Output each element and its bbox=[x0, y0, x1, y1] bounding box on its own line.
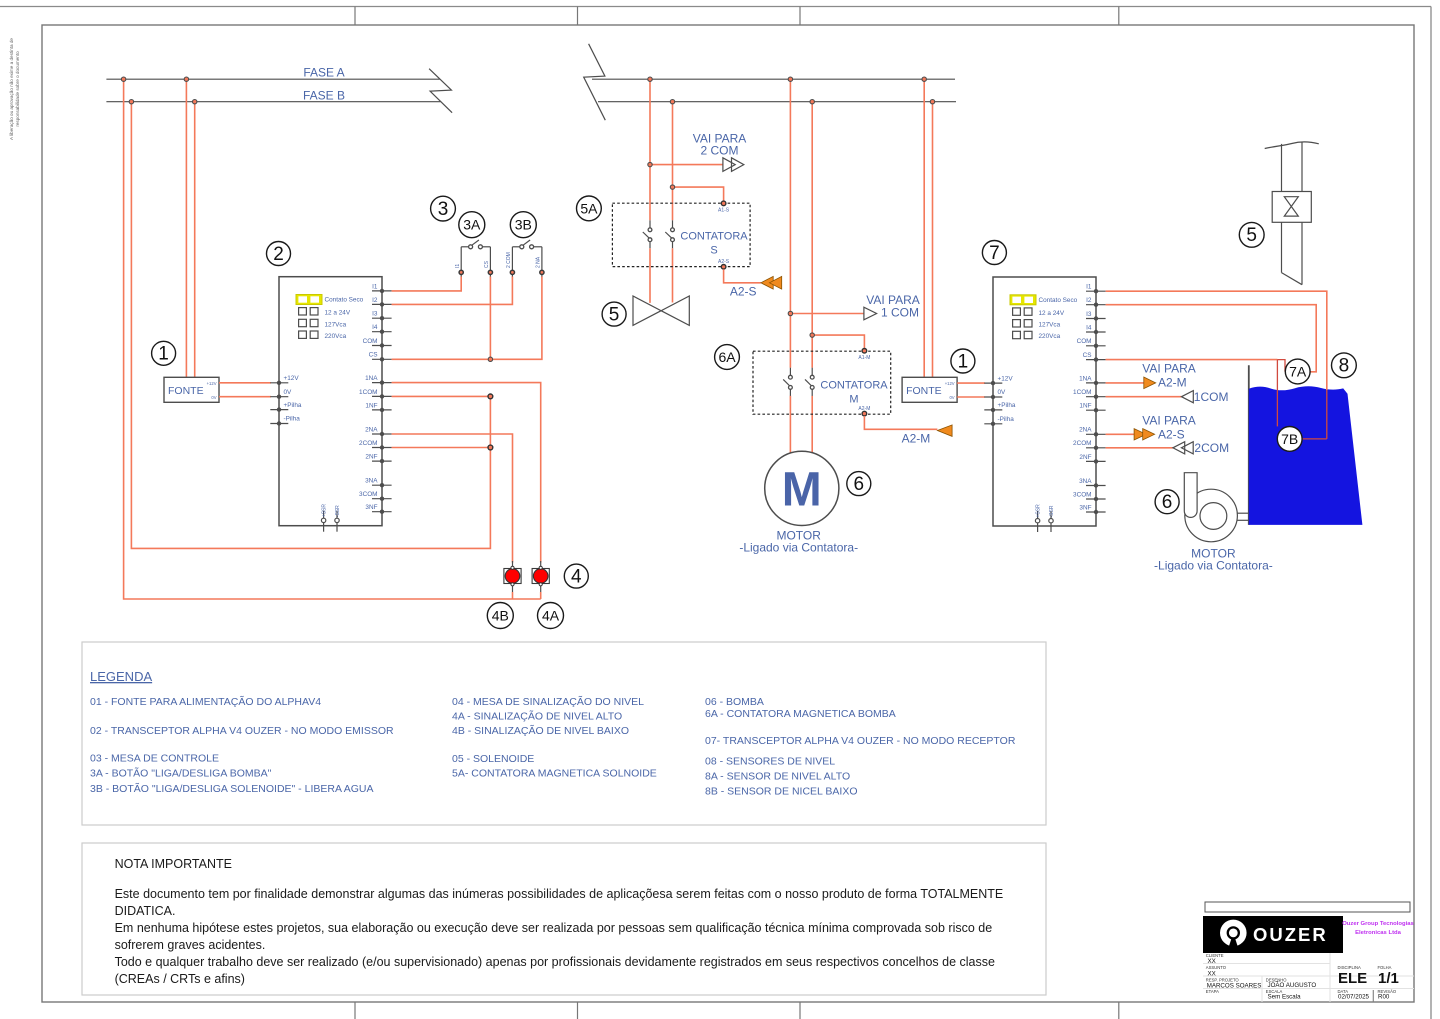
wire 2NA to button 4B bbox=[392, 434, 513, 563]
wire FASE B drop through contatora M to motor bbox=[811, 102, 813, 453]
text 2COM bbox=[1194, 441, 1229, 455]
arrow VAI PARA 2 COM (double open right) bbox=[723, 158, 744, 172]
wire U7 I1 to sensor 7B bbox=[1106, 291, 1327, 390]
power supply FONTE 2 bbox=[902, 377, 957, 402]
svg-text:sofrerem graves acidentes.: sofrerem graves acidentes. bbox=[115, 938, 266, 952]
svg-text:VAI PARA: VAI PARA bbox=[1142, 362, 1196, 376]
balloon 4 bbox=[564, 564, 588, 588]
node 2COM junction bbox=[488, 445, 493, 450]
svg-text:A2-S: A2-S bbox=[718, 259, 730, 265]
svg-text:7: 7 bbox=[989, 243, 1000, 264]
balloon 3A bbox=[459, 212, 485, 238]
text VAI PARA 1 COM bbox=[866, 293, 920, 320]
svg-text:M: M bbox=[849, 394, 858, 406]
balloon 5A bbox=[577, 196, 602, 221]
wire U7 I2 to sensor 7A bbox=[1106, 305, 1317, 372]
svg-text:I1: I1 bbox=[455, 264, 461, 268]
svg-text:A2-S: A2-S bbox=[730, 285, 757, 299]
title block divider lines bbox=[1203, 953, 1414, 1002]
svg-text:4A: 4A bbox=[542, 608, 560, 624]
text MOTOR (left) bbox=[739, 529, 858, 555]
legend title bbox=[90, 669, 152, 684]
svg-text:02 - TRANSCEPTOR ALPHA V4 OUZE: 02 - TRANSCEPTOR ALPHA V4 OUZER - NO MOD… bbox=[90, 725, 394, 737]
balloon 2 bbox=[267, 242, 291, 266]
wire 4B bottom to rail bbox=[512, 592, 514, 599]
node FASE B x194 bbox=[193, 100, 197, 104]
svg-text:ETAPA: ETAPA bbox=[1206, 989, 1219, 994]
wire FASE A drop into FONTE bbox=[185, 79, 187, 377]
arrow VAI PARA 1 COM (open right) bbox=[864, 307, 877, 320]
svg-text:A1-S: A1-S bbox=[718, 208, 730, 214]
balloon 6 (right) bbox=[1155, 490, 1179, 514]
solenoide valve 5 (right, box with hourglass) bbox=[1272, 192, 1311, 223]
svg-text:2 COM: 2 COM bbox=[700, 144, 738, 158]
svg-text:5: 5 bbox=[1246, 225, 1257, 246]
tank left wall bbox=[1248, 365, 1250, 525]
wire I2 to 3B bbox=[392, 277, 513, 305]
water inlet pipe (wavy source) bbox=[1265, 142, 1319, 149]
svg-text:R00: R00 bbox=[1378, 993, 1390, 1000]
svg-text:DIDATICA.: DIDATICA. bbox=[115, 904, 176, 918]
wire 1COM to return rail bbox=[392, 395, 491, 397]
transceptor U7 (ALPHA V4 receptor) bbox=[984, 277, 1105, 532]
indicator lamp 4A (nivel alto) bbox=[532, 561, 549, 592]
svg-text:6A: 6A bbox=[718, 349, 736, 365]
node FASE A x186 bbox=[184, 77, 188, 81]
terminal label CS bbox=[484, 260, 490, 268]
switch lead x541 bbox=[540, 247, 544, 278]
motor M circle bbox=[765, 451, 839, 525]
wire sensor 7B link bbox=[1302, 438, 1327, 440]
svg-text:6: 6 bbox=[854, 474, 865, 495]
bus FASE A segment 1 bbox=[106, 78, 439, 80]
legend box bbox=[82, 642, 1046, 825]
wire FASE B drop to FONTE 2 bbox=[932, 102, 934, 378]
svg-text:-Ligado via Contatora-: -Ligado via Contatora- bbox=[739, 541, 858, 555]
svg-text:S: S bbox=[710, 245, 717, 257]
text 1COM bbox=[1194, 390, 1229, 404]
nota text bbox=[115, 857, 1004, 986]
node FASE B x131 bbox=[129, 100, 133, 104]
svg-text:3B - BOTÃO "LIGA/DESLIGA SOLEN: 3B - BOTÃO "LIGA/DESLIGA SOLENOIDE" - LI… bbox=[90, 782, 373, 795]
node FASE B x812 bbox=[810, 100, 814, 104]
pin A1-M bbox=[858, 349, 870, 361]
svg-text:3A - BOTÃO "LIGA/DESLIGA BOMBA: 3A - BOTÃO "LIGA/DESLIGA BOMBA" bbox=[90, 767, 272, 780]
svg-text:Todo e qualquer trabalho deve: Todo e qualquer trabalho deve ser realiz… bbox=[115, 955, 995, 969]
wire FONTE2 +12V to U7 bbox=[957, 382, 985, 384]
arrow A2-S (double filled left, orange) bbox=[761, 276, 782, 289]
svg-text:1COM: 1COM bbox=[1194, 390, 1229, 404]
node x790 y313 bbox=[788, 311, 792, 315]
sensor 7B bbox=[1277, 427, 1302, 452]
svg-text:3B: 3B bbox=[515, 217, 532, 233]
bus FASE B segment 2 bbox=[598, 101, 956, 103]
switch lead x461 bbox=[459, 247, 463, 278]
text A2-M bbox=[902, 432, 931, 446]
balloon 6A bbox=[715, 345, 740, 370]
svg-text:1/1: 1/1 bbox=[1378, 970, 1399, 987]
svg-text:6: 6 bbox=[1162, 492, 1173, 513]
svg-text:3: 3 bbox=[438, 199, 449, 220]
svg-text:XX: XX bbox=[1208, 970, 1216, 977]
balloon 6 (motor) bbox=[847, 472, 871, 496]
balloon 5 (left) bbox=[602, 302, 626, 326]
svg-text:M: M bbox=[782, 464, 822, 517]
contatora S contact 1 bbox=[643, 220, 652, 248]
svg-text:OUZER: OUZER bbox=[1253, 924, 1328, 945]
arrow VAI PARA A2-M (filled right) bbox=[1144, 377, 1156, 389]
svg-text:Eletronicas Ltda: Eletronicas Ltda bbox=[1355, 930, 1402, 936]
balloon 4B bbox=[487, 603, 513, 629]
wire to VAI PARA 1 COM bbox=[790, 313, 864, 315]
wire FASE A drop to FONTE 2 bbox=[923, 79, 925, 377]
wire FASE B drop to solenoide valve bbox=[672, 102, 674, 303]
wire FASE A drop to bottom rail bbox=[124, 79, 541, 599]
switch lead x512 bbox=[510, 247, 514, 278]
wire to VAI PARA 2 COM bbox=[650, 164, 723, 166]
balloon 3 bbox=[431, 196, 456, 221]
pipe walls above valve bbox=[1282, 143, 1303, 192]
pipe outlet below valve bbox=[1282, 222, 1303, 284]
svg-text:2 NA: 2 NA bbox=[536, 256, 542, 268]
svg-text:A liberação ou aprovação não e: A liberação ou aprovação não exime a des… bbox=[9, 38, 14, 140]
svg-text:08 - SENSORES DE NIVEL: 08 - SENSORES DE NIVEL bbox=[705, 756, 835, 768]
frame tick marks top bbox=[355, 7, 1119, 26]
frame tick marks bottom bbox=[355, 1002, 1119, 1019]
switch 3B (LIGA/DESLIGA SOLENOIDE) bbox=[512, 240, 542, 249]
wire FASE B drop to COM return rail bbox=[131, 102, 490, 549]
legend column 1 bbox=[90, 695, 394, 795]
text A2-S bbox=[730, 285, 757, 299]
svg-text:Este documento tem por finalid: Este documento tem por finalidade demons… bbox=[115, 887, 1004, 901]
svg-text:5A: 5A bbox=[580, 200, 598, 216]
tank water (blue) bbox=[1249, 386, 1363, 525]
switch 3A (LIGA/DESLIGA BOMBA) bbox=[461, 240, 490, 249]
svg-text:A2-M: A2-M bbox=[902, 432, 931, 446]
solenoide valve 5 (bowtie) bbox=[633, 296, 689, 325]
svg-text:2: 2 bbox=[273, 244, 284, 265]
svg-text:8B - SENSOR DE NICEL BAIXO: 8B - SENSOR DE NICEL BAIXO bbox=[705, 786, 858, 798]
text VAI PARA 2 COM bbox=[693, 132, 747, 158]
wire 2COM to return rail bbox=[392, 447, 491, 449]
svg-text:07- TRANSCEPTOR ALPHA V4 OUZER: 07- TRANSCEPTOR ALPHA V4 OUZER - NO MODO… bbox=[705, 735, 1016, 747]
svg-text:NOTA IMPORTANTE: NOTA IMPORTANTE bbox=[115, 857, 232, 871]
title strip rect bbox=[1205, 902, 1410, 912]
wire A2-S to arrow bbox=[724, 269, 761, 283]
svg-text:2COM: 2COM bbox=[1194, 441, 1229, 455]
wire U7 1NA to arrow A2-M bbox=[1106, 382, 1144, 384]
svg-text:05 - SOLENOIDE: 05 - SOLENOIDE bbox=[452, 753, 534, 765]
wire FASE B branch to A1-M bbox=[812, 335, 864, 348]
big ELE / folha bbox=[1338, 970, 1399, 987]
svg-text:2 COM: 2 COM bbox=[506, 252, 512, 268]
wire CS to 3A/3B bbox=[392, 277, 542, 360]
bus break symbol right of segment 1 bbox=[429, 69, 452, 113]
node FASE B x932 bbox=[930, 100, 934, 104]
node 1COM junction bbox=[488, 394, 493, 399]
wire FASE A drop through contatora M to motor bbox=[789, 79, 791, 453]
nota box bbox=[82, 843, 1046, 995]
wire 4A bottom to rail bbox=[540, 592, 542, 599]
svg-text:ELE: ELE bbox=[1338, 970, 1367, 987]
indicator lamp 4B (nivel baixo) bbox=[504, 561, 521, 592]
wire A2-M to arrow bbox=[864, 416, 937, 429]
balloon 1 (left) bbox=[152, 341, 176, 365]
svg-text:8: 8 bbox=[1339, 356, 1350, 377]
svg-text:A2-S: A2-S bbox=[1158, 428, 1185, 442]
balloon 5 (right) bbox=[1239, 222, 1264, 247]
contatora M contact 2 bbox=[805, 368, 814, 396]
wire U7 CS to sensors bbox=[1106, 359, 1278, 361]
svg-text:02/07/2025: 02/07/2025 bbox=[1338, 993, 1370, 1000]
svg-text:A1-M: A1-M bbox=[858, 355, 870, 361]
wire FASE B branch to A1-S bbox=[673, 187, 724, 200]
data/revisao divider bbox=[1372, 990, 1374, 1002]
svg-text:LEGENDA: LEGENDA bbox=[90, 669, 152, 684]
balloon 3B bbox=[510, 212, 536, 238]
svg-text:4: 4 bbox=[571, 566, 582, 587]
company name purple bbox=[1342, 921, 1414, 936]
node x672 y187 bbox=[670, 185, 674, 189]
text VAI PARA A2-M bbox=[1142, 362, 1196, 390]
pin A1-S bbox=[718, 201, 730, 213]
node FASE A x924 bbox=[922, 77, 926, 81]
balloon 7 bbox=[982, 241, 1006, 265]
svg-text:1 COM: 1 COM bbox=[881, 306, 919, 320]
svg-text:1: 1 bbox=[958, 351, 969, 372]
arrow 1COM (open left) bbox=[1182, 391, 1194, 403]
transceptor U2 (ALPHA V4 emissor) bbox=[270, 277, 391, 532]
balloon 1 (right) bbox=[951, 349, 975, 373]
svg-text:XX: XX bbox=[1208, 958, 1216, 965]
svg-text:(CREAs / CRTs e afins): (CREAs / CRTs e afins) bbox=[115, 972, 245, 986]
svg-text:8A - SENSOR DE NIVEL ALTO: 8A - SENSOR DE NIVEL ALTO bbox=[705, 771, 850, 783]
contatora S contact 2 bbox=[665, 220, 674, 248]
node FASE A x650 bbox=[648, 77, 652, 81]
OUZER logo box bbox=[1203, 916, 1343, 953]
wire FONTE2 0V to U7 bbox=[957, 396, 985, 398]
svg-text:6A - CONTATORA MAGNETICA BOMBA: 6A - CONTATORA MAGNETICA BOMBA bbox=[705, 708, 896, 720]
svg-text:4A - SINALIZAÇÃO DE NIVEL ALTO: 4A - SINALIZAÇÃO DE NIVEL ALTO bbox=[452, 710, 622, 723]
bus FASE B segment 1 bbox=[106, 101, 440, 103]
switch lead x490 bbox=[488, 247, 492, 278]
legend column 2 bbox=[452, 695, 657, 780]
svg-text:3A: 3A bbox=[463, 217, 481, 233]
pin A2-S bbox=[718, 259, 730, 269]
svg-text:4B: 4B bbox=[492, 608, 509, 624]
node FASE A x790 bbox=[788, 77, 792, 81]
svg-text:FASE B: FASE B bbox=[303, 89, 345, 103]
svg-text:7B: 7B bbox=[1281, 431, 1298, 447]
wire I1 to 3A bbox=[392, 277, 462, 291]
wire 1NA to button 4A bbox=[392, 383, 541, 563]
text CONTATORA M bbox=[820, 380, 888, 406]
title block fields bbox=[1206, 953, 1397, 994]
text MOTOR (right) bbox=[1154, 547, 1273, 573]
svg-text:5: 5 bbox=[609, 304, 620, 325]
wire FASE B drop into FONTE bbox=[194, 102, 196, 378]
arrow VAI PARA A2-S (double filled right) bbox=[1134, 429, 1155, 440]
wire U7 2COM from arrow bbox=[1106, 447, 1173, 449]
legend column 3 bbox=[705, 696, 1016, 798]
arrow A2-M (filled left, orange) bbox=[937, 425, 952, 437]
arrow 2COM (double open left) bbox=[1173, 442, 1193, 454]
svg-text:Em nenhuma hipótese estes proj: Em nenhuma hipótese estes projetos, sua … bbox=[115, 921, 993, 935]
bus break symbol left of segment 2 bbox=[584, 44, 606, 120]
svg-text:responsabilidade sobre o docum: responsabilidade sobre o documento bbox=[15, 51, 20, 127]
balloon 8 bbox=[1332, 353, 1357, 378]
bus FASE A segment 2 bbox=[592, 78, 955, 80]
wire U7 1COM from arrow bbox=[1106, 396, 1182, 398]
svg-text:5A- CONTATORA MAGNETICA SOLNOI: 5A- CONTATORA MAGNETICA SOLNOIDE bbox=[452, 768, 657, 780]
node FASE B x672 bbox=[670, 100, 674, 104]
label FASE B bbox=[303, 89, 345, 103]
svg-text:FASE A: FASE A bbox=[303, 66, 344, 80]
svg-text:JOÃO AUGUSTO: JOÃO AUGUSTO bbox=[1268, 982, 1317, 989]
sensor 7A bbox=[1285, 359, 1310, 384]
svg-text:CS: CS bbox=[484, 260, 490, 268]
contatora S dashed enclosure bbox=[612, 203, 750, 266]
svg-text:A2-M: A2-M bbox=[858, 406, 870, 412]
svg-text:Ouzer Group Tecnologias: Ouzer Group Tecnologias bbox=[1342, 921, 1414, 927]
contatora M dashed enclosure bbox=[753, 351, 891, 414]
text CONTATORA S bbox=[680, 231, 748, 257]
pin A2-M bbox=[858, 406, 870, 416]
svg-text:-Ligado via Contatora-: -Ligado via Contatora- bbox=[1154, 559, 1273, 573]
svg-text:04 - MESA DE SINALIZAÇÃO DO NI: 04 - MESA DE SINALIZAÇÃO DO NIVEL bbox=[452, 695, 644, 708]
svg-text:A2-M: A2-M bbox=[1158, 376, 1187, 390]
pump (bomba) 6 bbox=[1184, 473, 1249, 542]
svg-text:CONTATORA: CONTATORA bbox=[680, 231, 748, 243]
svg-text:MARCOS SOARES: MARCOS SOARES bbox=[1207, 982, 1262, 989]
svg-text:4B - SINALIZAÇÃO DE NIVEL BAIX: 4B - SINALIZAÇÃO DE NIVEL BAIXO bbox=[452, 724, 629, 737]
text VAI PARA A2-S bbox=[1142, 414, 1196, 442]
wire FONTE 0V to U2 bbox=[219, 396, 271, 398]
node x650 y164 bbox=[648, 162, 652, 166]
svg-text:03 - MESA DE CONTROLE: 03 - MESA DE CONTROLE bbox=[90, 753, 219, 765]
svg-text:Sem Escala: Sem Escala bbox=[1268, 993, 1302, 1000]
svg-text:01 - FONTE PARA ALIMENTAÇÃO DO: 01 - FONTE PARA ALIMENTAÇÃO DO ALPHAV4 bbox=[90, 695, 321, 708]
terminal label 2 NA bbox=[536, 256, 542, 268]
power supply FONTE 1 bbox=[164, 377, 219, 402]
svg-text:1: 1 bbox=[158, 344, 169, 365]
svg-text:06 - BOMBA: 06 - BOMBA bbox=[705, 696, 764, 708]
contatora M contact 1 bbox=[783, 368, 792, 396]
node CS junction bbox=[488, 357, 492, 361]
terminal label 2 COM bbox=[506, 252, 512, 268]
terminal label I1 bbox=[455, 264, 461, 268]
svg-text:CONTATORA: CONTATORA bbox=[820, 380, 888, 392]
node x812 y335 bbox=[810, 333, 814, 337]
node FASE A x123 bbox=[121, 77, 125, 81]
label FASE A bbox=[303, 66, 344, 80]
svg-text:VAI PARA: VAI PARA bbox=[1142, 414, 1196, 428]
wire FONTE +12V to U2 bbox=[219, 382, 271, 384]
left margin note (rotated) bbox=[9, 38, 20, 140]
svg-text:7A: 7A bbox=[1289, 364, 1307, 380]
wire U7 2NA to arrow A2-S bbox=[1106, 433, 1135, 435]
wire FASE A drop to solenoide valve bbox=[649, 79, 651, 303]
balloon 4A bbox=[538, 603, 564, 629]
